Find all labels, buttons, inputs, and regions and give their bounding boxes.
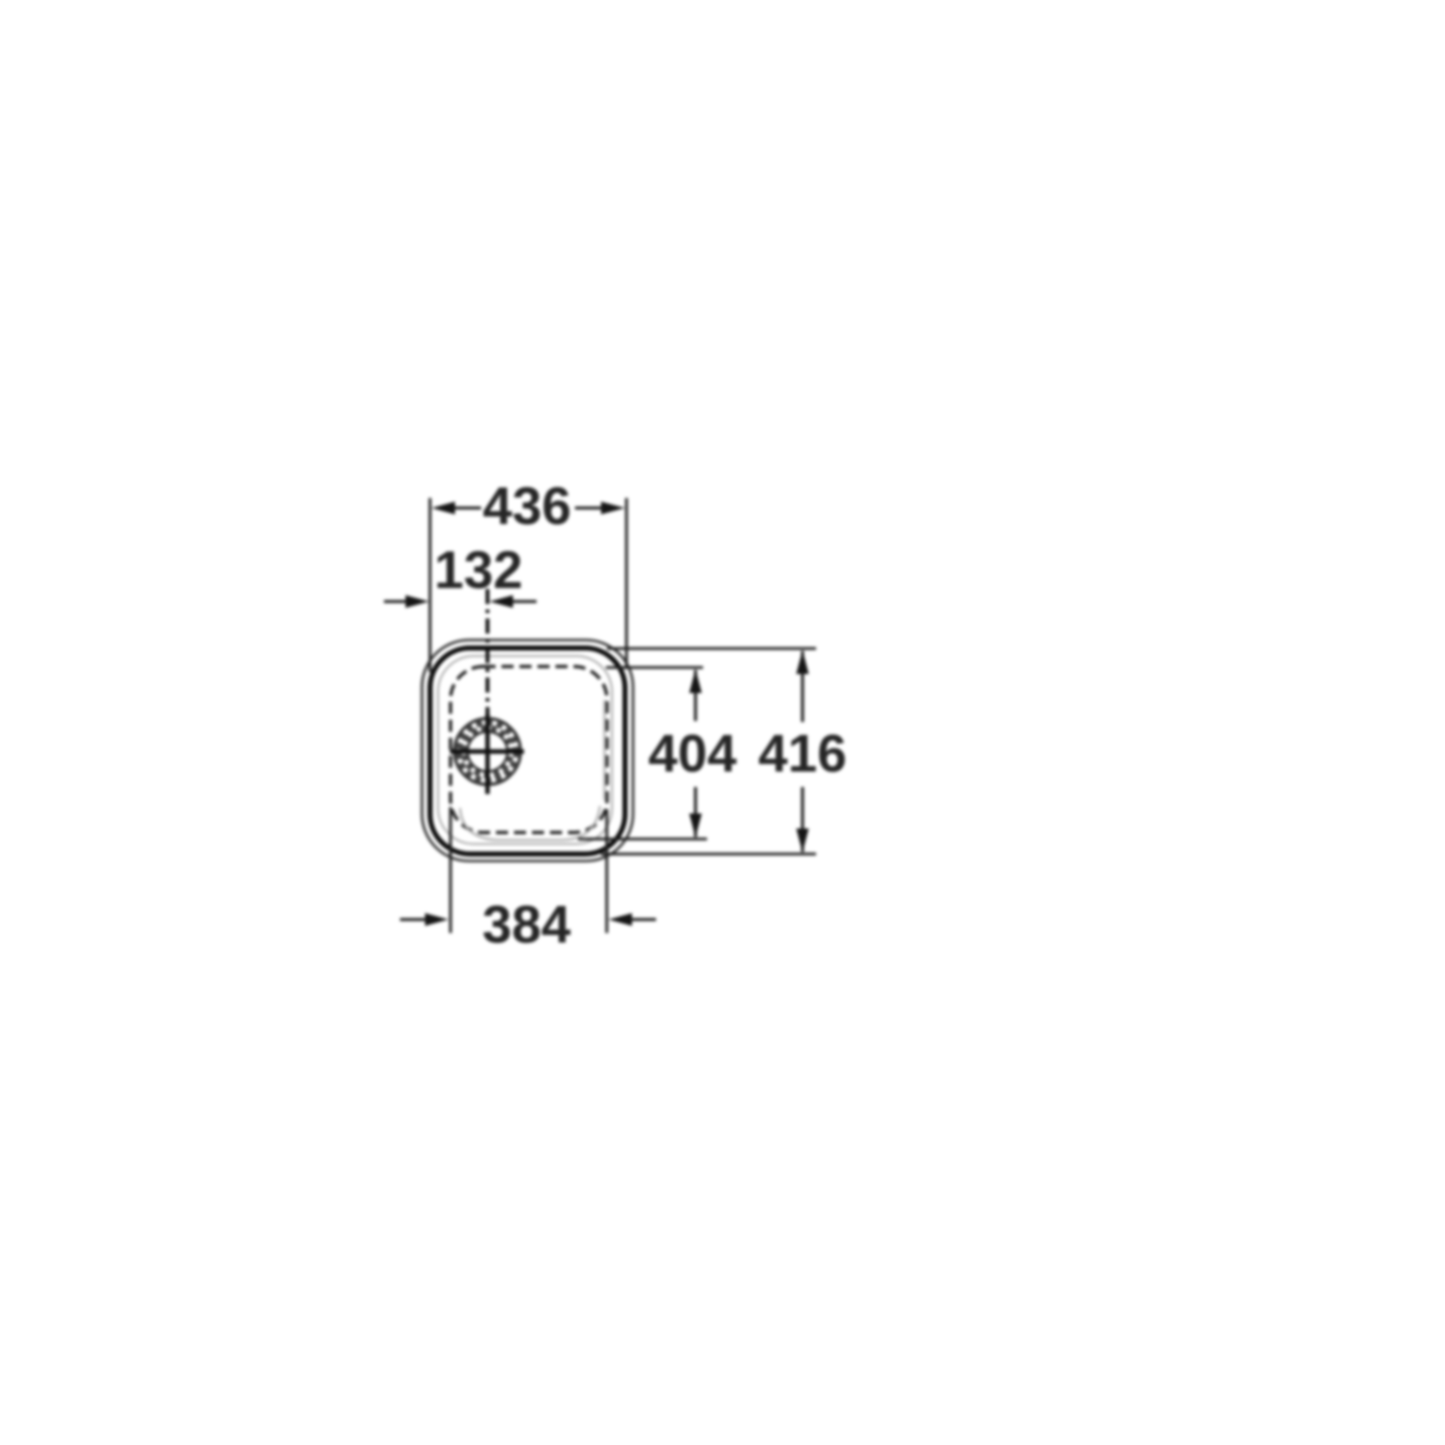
drain crosshair horizontal xyxy=(450,749,524,753)
dim 404 tail bottom xyxy=(694,787,697,837)
dim 384 extension line right xyxy=(605,809,608,933)
arrowhead 404 down xyxy=(689,814,702,838)
arrowhead 416 down xyxy=(796,829,809,853)
dim 436 extension line left xyxy=(429,498,432,672)
svg-text:404: 404 xyxy=(648,725,737,784)
dim 436 tail left xyxy=(449,507,481,510)
bowl bottom shadow arc xyxy=(460,806,600,840)
dim 132 arrow tail right xyxy=(509,600,537,603)
dim 404 tail top xyxy=(694,670,697,721)
dim 416 extension line top xyxy=(607,647,816,650)
arrowhead 416 up xyxy=(796,650,809,674)
svg-text:436: 436 xyxy=(483,477,571,536)
bowl right shadow line xyxy=(603,700,606,800)
arrowhead 436 right xyxy=(601,502,625,515)
svg-text:132: 132 xyxy=(434,541,522,600)
drain hatched ring outer row xyxy=(458,722,517,781)
arrowhead 404 up xyxy=(689,669,702,693)
arrowhead 384 left pointing right xyxy=(425,913,449,926)
drain crosshair vertical xyxy=(485,714,489,794)
arrowhead 436 left xyxy=(432,502,456,515)
svg-text:384: 384 xyxy=(482,896,571,955)
dim 436 extension line right xyxy=(625,498,628,669)
drain inner circle xyxy=(468,732,508,772)
dim 416 extension line bottom xyxy=(601,853,816,856)
dim 404 extension line bottom xyxy=(578,838,707,841)
svg-text:416: 416 xyxy=(758,725,846,784)
drain outer circle xyxy=(455,719,521,785)
centerline of drain (dash-dot) xyxy=(486,589,490,714)
sink rim inner shadow (light gray) xyxy=(438,656,612,844)
dim 384 arrow tail far left xyxy=(400,918,429,921)
countertop cutout line (dashed) xyxy=(451,667,608,833)
dim 416 tail top xyxy=(801,651,804,722)
dim 132 arrow tail far left xyxy=(384,600,410,603)
drain hatched ring inner row xyxy=(465,729,511,775)
arrowhead 132 pointing right at ext line xyxy=(406,595,430,608)
dim 384 arrow tail right xyxy=(629,918,656,921)
dim 416 tail bottom xyxy=(801,787,804,852)
dim 404 extension line top xyxy=(606,666,703,669)
arrowhead 384 right pointing left xyxy=(609,913,633,926)
dim 384 extension line left xyxy=(449,807,452,933)
dim 436 tail right xyxy=(575,507,607,510)
sink bowl opening edge (thick) xyxy=(430,648,625,854)
arrowhead 132 pointing left at centerline xyxy=(490,595,514,608)
sink outer flange outline xyxy=(422,640,633,861)
